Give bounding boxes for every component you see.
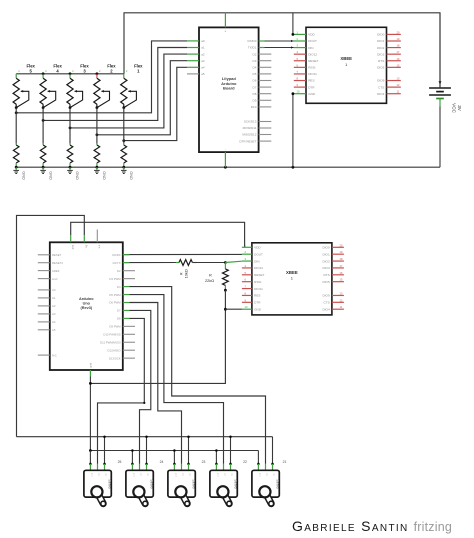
svg-text:a3: a3 <box>201 59 205 63</box>
op board U3 Arduino Uno <box>50 242 123 370</box>
svg-text:DIO0: DIO0 <box>322 246 330 250</box>
svg-text:GND: GND <box>21 171 25 180</box>
svg-text:Arduino: Arduino <box>79 297 94 301</box>
svg-text:D7: D7 <box>253 85 257 89</box>
svg-text:DIO12: DIO12 <box>308 52 317 56</box>
servo M5 <box>252 464 280 506</box>
svg-text:-: - <box>225 147 226 151</box>
node servo1 power junctions <box>103 435 106 465</box>
svg-text:VDD: VDD <box>254 246 261 250</box>
pin Lilypad right stubs unconnected <box>259 54 272 141</box>
svg-text:DIO3: DIO3 <box>322 266 330 270</box>
svg-text:a2: a2 <box>201 52 205 56</box>
wire servo ground rail <box>90 450 258 452</box>
node signal bend D8 <box>143 402 145 404</box>
svg-text:gnd: gnd <box>174 473 176 476</box>
svg-text:4: 4 <box>56 69 59 74</box>
ground symbol GND4 <box>40 167 52 180</box>
node flex3 tap junction <box>69 127 72 130</box>
wire node to XBEE2 DIN <box>225 261 242 262</box>
flex sensor Flex3 <box>67 63 89 107</box>
svg-text:RES: RES <box>254 294 260 298</box>
svg-text:D8: D8 <box>117 317 121 321</box>
svg-text:gnd: gnd <box>132 473 134 476</box>
svg-text:2: 2 <box>99 70 101 73</box>
pin XBEE2 left stubs <box>242 243 252 309</box>
svg-text:D7: D7 <box>117 309 121 313</box>
svg-text:vin: vin <box>97 245 101 249</box>
wire Uno 5V to servo power rail <box>17 215 85 436</box>
svg-text:D3 PWM: D3 PWM <box>109 277 121 281</box>
label servo M5 designator <box>283 460 287 464</box>
svg-text:sig: sig <box>231 473 233 476</box>
svg-text:Uno: Uno <box>83 302 91 306</box>
svg-text:DIN: DIN <box>308 46 313 50</box>
svg-text:A5: A5 <box>52 328 56 332</box>
svg-text:N/C: N/C <box>52 353 57 357</box>
node XBEE1 GND junction <box>292 92 295 95</box>
svg-text:DTR: DTR <box>254 301 261 305</box>
svg-text:XBEE: XBEE <box>340 56 352 61</box>
resistor pulldown R3 <box>67 144 73 168</box>
svg-text:GND: GND <box>48 171 52 180</box>
wire servo5 power tap <box>272 437 274 464</box>
svg-text:2: 2 <box>18 70 20 73</box>
svg-text:D3: D3 <box>253 59 257 63</box>
node flex5 bottom junction <box>15 106 18 109</box>
wire Uno D0/RX to XBEE2 DOUT <box>123 253 242 255</box>
node servo3 ground junctions <box>173 449 176 465</box>
wire tee to XBEE2 GND <box>225 308 242 310</box>
node GND tee at Uno GND wire <box>89 382 92 385</box>
svg-text:gnd: gnd <box>90 473 92 476</box>
wire flex1 to Lilypad a4 <box>124 67 187 140</box>
svg-text:D2: D2 <box>117 269 121 273</box>
wire servo5 ground tap <box>257 451 259 464</box>
svg-text:RESET: RESET <box>308 59 318 63</box>
svg-text:a1: a1 <box>201 46 205 50</box>
svg-text:GND: GND <box>308 92 316 96</box>
wire servo4 power tap <box>230 437 232 464</box>
wire servo2 ground tap <box>131 451 133 464</box>
node servo2 power junctions <box>145 435 148 465</box>
svg-text:D6: D6 <box>253 79 257 83</box>
svg-text:Servo: Servo <box>150 479 154 488</box>
pin Lilypad analog stubs <box>187 41 199 74</box>
svg-text:DIO0: DIO0 <box>377 33 385 37</box>
svg-text:gnd: gnd <box>258 473 260 476</box>
svg-text:SCK/D13: SCK/D13 <box>244 120 257 124</box>
pin XBEE1 left stubs <box>294 30 306 93</box>
svg-text:DIN: DIN <box>254 259 259 263</box>
svg-text:ioref: ioref <box>52 277 58 281</box>
wire Uno GND down to servo ground rail <box>89 377 91 451</box>
svg-text:DIO9: DIO9 <box>322 294 330 298</box>
wire flex4 column <box>42 108 44 144</box>
svg-text:DTR RESET: DTR RESET <box>239 139 256 143</box>
op module U4 XBEE2 <box>252 243 332 315</box>
node servo5 ground junctions <box>257 463 260 466</box>
label servo M1 designator <box>118 460 122 464</box>
resistor pulldown R4 <box>40 144 46 168</box>
pin XBEE1 right stubs <box>387 30 401 93</box>
wire flex2 column <box>96 108 98 144</box>
wire Uno D6 to Servo3 signal <box>123 303 182 464</box>
svg-text:DIO1: DIO1 <box>377 39 385 43</box>
ground symbol GND5 <box>13 167 25 180</box>
wire Uno D8 to Servo1 signal <box>98 318 145 464</box>
wire servo3 ground tap <box>173 451 175 464</box>
servo M2 <box>126 464 154 506</box>
svg-text:VCC: VCC <box>452 103 457 113</box>
flex sensor Flex1 <box>121 63 143 107</box>
label servo M4 designator <box>243 460 247 464</box>
node R1-R2-DIN junction <box>224 261 227 264</box>
svg-text:A0: A0 <box>52 288 56 292</box>
svg-text:A3: A3 <box>52 312 56 316</box>
svg-text:A1: A1 <box>52 296 56 300</box>
svg-text:2: 2 <box>72 70 74 73</box>
label R1 10k <box>179 269 189 278</box>
node flex2 bottom junction <box>96 106 99 109</box>
svg-text:GND: GND <box>75 171 79 180</box>
svg-text:D13/SCK: D13/SCK <box>109 356 121 360</box>
svg-text:10kΩ: 10kΩ <box>183 269 188 278</box>
wire Uno 3V3 to XBEE2 VDD <box>71 222 245 247</box>
svg-text:D2: D2 <box>253 52 257 56</box>
label servo M3 designator <box>202 460 206 464</box>
svg-text:sig: sig <box>189 473 191 476</box>
resistor pulldown R1 <box>121 144 127 168</box>
svg-text:pwr: pwr <box>182 473 184 477</box>
label battery VCC 3V <box>452 103 462 113</box>
pin Uno top stubs <box>71 230 98 243</box>
flex sensor Flex4 <box>40 63 62 107</box>
node GND bus junctions <box>15 166 295 169</box>
flex sensor Flex5 <box>13 63 35 107</box>
svg-text:gnd: gnd <box>216 473 218 476</box>
node servo4 ground junctions <box>215 449 218 465</box>
svg-text:DIO9: DIO9 <box>377 79 385 83</box>
svg-text:RTS: RTS <box>378 59 384 63</box>
svg-text:2: 2 <box>126 70 128 73</box>
svg-text:DIO5: DIO5 <box>322 280 330 284</box>
label R2 22k <box>205 273 214 283</box>
pin Uno left stubs unconnected <box>38 255 50 355</box>
svg-text:D4: D4 <box>117 285 121 289</box>
wire flex2 to Lilypad a3 <box>97 61 187 135</box>
wire servo3 power tap <box>188 437 190 464</box>
svg-text:2: 2 <box>45 70 47 73</box>
svg-text:22: 22 <box>243 460 247 464</box>
svg-text:sig: sig <box>273 473 275 476</box>
pin Uno right stubs unconnected <box>123 271 135 358</box>
node VCC bus junctions <box>42 72 99 75</box>
wire flex5 column <box>15 108 17 144</box>
pin Lilypad + top <box>224 13 226 28</box>
svg-text:25: 25 <box>118 460 122 464</box>
svg-text:D10 PWM/SS: D10 PWM/SS <box>103 333 120 337</box>
svg-text:RX/D0: RX/D0 <box>248 39 257 43</box>
svg-text:a4: a4 <box>201 66 205 70</box>
wire flex3 column <box>69 108 71 144</box>
node flex4 bottom junction <box>42 106 45 109</box>
svg-text:1: 1 <box>137 69 140 74</box>
svg-text:CTS: CTS <box>324 301 330 305</box>
wire flex5 to Lilypad a0 <box>16 41 187 113</box>
resistor R2 22k <box>223 263 229 291</box>
wire servo power rail <box>17 436 273 438</box>
wire R1 to XBEE2 DIN node <box>192 262 225 264</box>
svg-text:D5 PWM: D5 PWM <box>109 293 121 297</box>
svg-text:DIO12: DIO12 <box>254 266 263 270</box>
pin Uno GND stub <box>89 370 91 377</box>
svg-text:GND: GND <box>102 171 106 180</box>
label title Gabriele Santin fritzing <box>292 518 452 534</box>
resistor pulldown R5 <box>13 144 19 168</box>
wire flex4 to Lilypad a1 <box>43 48 187 121</box>
svg-text:RES: RES <box>308 79 314 83</box>
svg-text:2: 2 <box>110 69 113 74</box>
svg-text:DIO4: DIO4 <box>377 92 385 96</box>
node XBEE2 GND tee <box>224 308 227 311</box>
wire VCC top rail <box>124 13 440 87</box>
node flex5 tap junction <box>15 111 18 114</box>
ground symbol GND2 <box>94 167 106 180</box>
pin XBEE2 right stubs <box>332 243 344 309</box>
svg-text:A2: A2 <box>52 304 56 308</box>
svg-text:RTS: RTS <box>324 273 330 277</box>
svg-text:RSSI: RSSI <box>308 66 315 70</box>
svg-text:MISO/D12: MISO/D12 <box>242 133 256 137</box>
node servo5 power junctions <box>271 463 274 466</box>
wire XBEE1 GND down <box>292 94 294 167</box>
svg-text:DIO4: DIO4 <box>322 307 330 311</box>
svg-text:TX/D1: TX/D1 <box>248 46 257 50</box>
svg-text:DOUT: DOUT <box>308 39 317 43</box>
svg-text:+: + <box>224 30 226 34</box>
svg-text:VDD: VDD <box>308 33 315 37</box>
svg-text:pwr: pwr <box>224 473 226 477</box>
svg-text:MOSI/D11: MOSI/D11 <box>243 126 257 130</box>
wire flex1 column <box>123 108 125 144</box>
svg-text:Servo: Servo <box>276 479 280 488</box>
svg-text:DTR: DTR <box>308 85 315 89</box>
wire Lilypad TX to XBEE1 DIN <box>259 46 294 48</box>
svg-text:A4: A4 <box>52 320 56 324</box>
svg-text:DIO11: DIO11 <box>308 72 317 76</box>
svg-text:GND: GND <box>254 307 262 311</box>
svg-text:AREF: AREF <box>52 269 60 273</box>
node flex1 tap junction <box>122 139 125 142</box>
svg-text:pwr: pwr <box>266 473 268 477</box>
svg-text:D8: D8 <box>253 92 257 96</box>
svg-text:24: 24 <box>160 460 164 464</box>
wire Uno D1/TX to R1 <box>123 262 179 264</box>
svg-text:DOUT: DOUT <box>254 252 263 256</box>
wire R2 to XBEE2 GND and Uno GND <box>90 290 225 383</box>
wire VCC to XBEE1 VDD <box>292 13 294 35</box>
svg-text:DIO11: DIO11 <box>254 287 263 291</box>
wire Lilypad RX to XBEE1 DOUT <box>259 40 294 42</box>
node flex2 tap junction <box>96 133 99 136</box>
wire Uno D4 to Servo5 signal <box>123 287 266 464</box>
svg-text:3: 3 <box>83 69 86 74</box>
op board U1 Lilypad Arduino <box>199 27 259 152</box>
op module U2 XBEE1 <box>306 27 387 103</box>
svg-text:21: 21 <box>283 460 287 464</box>
wire Uno D7 to Servo2 signal <box>123 310 151 463</box>
svg-text:R: R <box>209 273 212 278</box>
svg-text:(Rev3): (Rev3) <box>80 306 92 310</box>
svg-text:GND: GND <box>129 171 133 180</box>
node servo2 ground junctions <box>131 449 134 465</box>
node servo4 power junctions <box>229 435 232 465</box>
svg-text:3V: 3V <box>457 105 462 112</box>
svg-text:Board: Board <box>223 86 235 91</box>
svg-text:D12/MISO: D12/MISO <box>108 348 122 352</box>
servo M1 <box>84 464 112 506</box>
node ground rail start <box>89 449 92 452</box>
servo M3 <box>168 464 196 506</box>
svg-text:D1/TX: D1/TX <box>113 261 121 265</box>
node XBEE1 VDD junction <box>292 33 295 36</box>
svg-text:Servo: Servo <box>192 479 196 488</box>
wire flex3 to Lilypad a2 <box>70 54 187 128</box>
svg-text:DIO5: DIO5 <box>377 66 385 70</box>
svg-text:23: 23 <box>202 460 206 464</box>
svg-text:DIO2: DIO2 <box>377 46 385 50</box>
resistor pulldown R2 <box>94 144 100 168</box>
wire servo2 power tap <box>146 437 148 464</box>
svg-text:a5: a5 <box>201 72 205 76</box>
resistor R1 10k <box>176 260 197 266</box>
svg-text:D0/RX: D0/RX <box>112 253 120 257</box>
svg-text:DIO3: DIO3 <box>377 52 385 56</box>
ground symbol GND3 <box>67 167 79 180</box>
servo M4 <box>210 464 238 506</box>
node flex1 bottom junction <box>122 106 125 109</box>
wire servo1 ground tap <box>89 451 91 464</box>
svg-text:DIO2: DIO2 <box>322 259 330 263</box>
svg-text:D11 PWM/MOSI: D11 PWM/MOSI <box>100 340 121 344</box>
wire flex VCC bus <box>16 73 124 75</box>
svg-text:RESET: RESET <box>52 253 62 257</box>
node servo3 power junctions <box>187 435 190 465</box>
svg-text:D10: D10 <box>251 105 257 109</box>
svg-text:D6 PWM: D6 PWM <box>109 301 121 305</box>
ground symbol GND1 <box>121 167 133 180</box>
node servo1 ground junctions <box>89 463 92 466</box>
node R2 bottom <box>224 289 227 292</box>
svg-text:Servo: Servo <box>234 479 238 488</box>
svg-text:a0: a0 <box>201 39 205 43</box>
svg-text:XBEE: XBEE <box>286 270 298 275</box>
svg-text:D4: D4 <box>253 66 257 70</box>
svg-text:CTS: CTS <box>378 85 384 89</box>
battery BT1 VCC 3V <box>429 13 451 167</box>
svg-text:5: 5 <box>30 69 33 74</box>
svg-text:sig: sig <box>147 473 149 476</box>
wire servo4 ground tap <box>215 451 217 464</box>
node flex4 tap junction <box>42 119 45 122</box>
svg-text:D9: D9 <box>253 99 257 103</box>
svg-text:D9 PWM: D9 PWM <box>109 325 121 329</box>
wire Uno D5 to Servo4 signal <box>123 295 224 464</box>
svg-text:22kΩ: 22kΩ <box>205 278 214 283</box>
pin Lilypad - bottom <box>224 152 226 167</box>
flex sensor Flex2 <box>94 63 116 107</box>
svg-text:gnd: gnd <box>89 362 93 367</box>
svg-text:3v3: 3v3 <box>71 245 75 250</box>
svg-text:sig: sig <box>105 473 107 476</box>
svg-text:RSSI: RSSI <box>254 280 261 284</box>
label servo M2 designator <box>160 460 164 464</box>
wire servo1 power tap <box>104 437 106 464</box>
svg-text:RESET: RESET <box>254 273 264 277</box>
svg-text:pwr: pwr <box>98 473 100 477</box>
svg-text:D5: D5 <box>253 72 257 76</box>
node flex3 bottom junction <box>69 106 72 109</box>
svg-text:pwr: pwr <box>140 473 142 477</box>
svg-text:RESET2: RESET2 <box>52 261 63 265</box>
wire GND bus top circuit <box>16 166 440 168</box>
svg-text:Servo: Servo <box>108 479 112 488</box>
svg-text:DIO1: DIO1 <box>322 252 330 256</box>
